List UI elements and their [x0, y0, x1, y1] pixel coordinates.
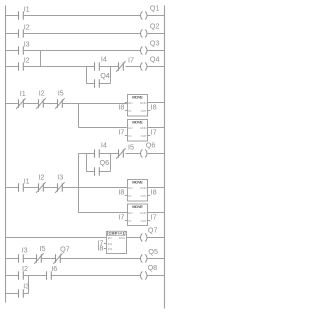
wire rung 7 left rail to contact I1 — [6, 187, 19, 189]
wire rung 5 NC I5 to block 1 EN — [62, 103, 127, 105]
svg-text:OUT: OUT — [141, 109, 147, 113]
contact Q4 (rung 4 latch branch) — [95, 71, 110, 88]
svg-text:EN: EN — [128, 101, 132, 105]
svg-text:IN: IN — [128, 194, 131, 198]
NC contact I5 (rung 9) — [34, 244, 45, 264]
wire left rail to CMP block EN — [6, 237, 107, 239]
wire rung 10 left rail to contact I2 — [6, 275, 19, 277]
svg-text:I8: I8 — [97, 244, 103, 253]
wire rung 1 contact I1 to coil Q1 — [23, 15, 140, 17]
wire rung 3 contact I3 to coil Q3 — [23, 50, 140, 52]
svg-text:OUT: OUT — [141, 134, 147, 138]
wire ENO of block 3 to right rail — [148, 187, 165, 189]
svg-text:ENO: ENO — [140, 126, 147, 130]
wire rung 10 coil Q8 to right rail — [147, 275, 164, 277]
svg-text:Q4: Q4 — [150, 55, 160, 64]
svg-text:I8: I8 — [151, 187, 157, 196]
svg-text:I7: I7 — [118, 212, 124, 221]
wire rung 6 coil Q6 to right rail — [147, 153, 164, 155]
coil Q8 — [141, 263, 158, 279]
left power rail — [5, 6, 7, 303]
coil Q6 — [141, 140, 156, 157]
branch wire contact Q4 to right vertical — [99, 83, 110, 85]
branch wire to block 4 EN — [79, 212, 128, 214]
wire rung 4 contact I2 to parallel branch — [23, 66, 94, 68]
svg-text:I5: I5 — [128, 143, 134, 152]
wire rung 7 NC I3 to block 3 EN — [62, 187, 127, 189]
branch wire to contact Q6 — [87, 171, 95, 173]
wire rung 2 left rail to contact I2 — [6, 33, 19, 35]
svg-text:I1: I1 — [24, 177, 30, 186]
svg-text:I8: I8 — [118, 187, 124, 196]
NC contact I5 (rung 6) — [116, 143, 134, 159]
svg-text:I2: I2 — [39, 89, 45, 98]
wire rung 7 NC I2 to NC I3 — [43, 187, 57, 189]
coil Q1 — [141, 4, 160, 20]
wire ENO of block 4 to right rail — [148, 212, 165, 214]
svg-text:I7: I7 — [151, 212, 157, 221]
svg-text:I2: I2 — [38, 172, 44, 181]
wire rung 3 coil Q3 to right rail — [147, 50, 164, 52]
coil Q4 — [141, 55, 160, 71]
NC contact I5 (rung 5) — [55, 89, 64, 109]
svg-text:Q6: Q6 — [146, 140, 156, 149]
wire rung 2 coil Q2 to right rail — [147, 33, 164, 35]
svg-text:I8: I8 — [151, 102, 157, 111]
NC contact I2 (rung 5) — [36, 89, 45, 109]
svg-text:I5: I5 — [58, 89, 64, 98]
svg-text:I3: I3 — [57, 172, 63, 181]
wire rung 9 NC Q7 to coil Q5 — [60, 258, 140, 260]
parallel join vertical (rung 10) — [28, 276, 30, 294]
wire rung 4 coil Q4 to right rail — [147, 66, 164, 68]
contact I4 (rung 6) — [95, 141, 107, 158]
branch wire contact I3 to join vertical — [23, 293, 28, 295]
svg-text:Q4: Q4 — [100, 71, 110, 80]
contact I2 (rung 2) — [19, 23, 30, 38]
svg-text:MOVE: MOVE — [132, 119, 143, 124]
branch right vertical (rung 4) — [110, 67, 112, 84]
svg-text:IN: IN — [128, 109, 131, 113]
svg-text:ENO: ENO — [140, 101, 147, 105]
svg-text:ENO: ENO — [119, 236, 126, 240]
function block MOVE 3 — [125, 179, 150, 201]
wire rung 4 NC I7 to coil Q4 — [126, 66, 141, 68]
wire rung 10 contact I2 to contact I6 — [23, 275, 46, 277]
svg-text:I3: I3 — [24, 40, 30, 49]
svg-text:IN: IN — [128, 134, 131, 138]
svg-text:MOVE: MOVE — [132, 179, 143, 184]
svg-text:I2: I2 — [24, 23, 30, 32]
contact Q6 (rung 6 latch branch) — [95, 158, 110, 176]
wire rung 1 left rail to contact I1 — [6, 15, 19, 17]
coil Q3 — [141, 39, 160, 55]
function block CMP (rung 8) — [104, 231, 127, 253]
contact I1 (rung 7) — [19, 177, 30, 192]
branch wire contact Q6 to right vertical — [99, 171, 110, 173]
svg-text:EN: EN — [108, 236, 112, 240]
wire rung 9 NC I5 to NC Q7 — [41, 258, 55, 260]
svg-text:Q2: Q2 — [150, 22, 160, 31]
right power rail — [164, 6, 166, 309]
branch vertical rung 5 down to block 2 — [78, 104, 80, 128]
wire rung 1 coil Q1 to right rail — [147, 15, 164, 17]
OR-branch vertical from rung 3 to rung 4 — [40, 51, 42, 67]
svg-text:Q3: Q3 — [150, 39, 160, 48]
function block MOVE 4 — [125, 204, 150, 226]
function block MOVE 1 — [125, 94, 150, 116]
svg-text:Q7: Q7 — [148, 226, 158, 235]
svg-text:I7: I7 — [128, 56, 134, 65]
contact I2 (rung 10) — [19, 264, 29, 280]
wire rung 4 left rail to contact I2 — [6, 66, 19, 68]
svg-text:Q6: Q6 — [100, 158, 110, 167]
svg-text:OUT: OUT — [141, 219, 147, 223]
contact I3 (rung 9) — [19, 246, 28, 263]
wire rung 10 contact I6 to coil Q8 — [51, 275, 140, 277]
svg-text:EN: EN — [128, 126, 132, 130]
svg-text:I3: I3 — [23, 282, 29, 291]
svg-text:I4: I4 — [101, 55, 107, 64]
wire rung 6 vertical to parallel box — [79, 153, 95, 155]
svg-text:I1: I1 — [20, 89, 26, 98]
svg-text:IN2: IN2 — [108, 247, 113, 251]
wire rung 4 after I4 to NC I7 — [99, 66, 118, 68]
svg-text:MOVE: MOVE — [132, 204, 143, 209]
contact I3 (rung 10 branch) — [19, 282, 30, 298]
wire rung 3 left rail to contact I3 — [6, 50, 19, 52]
coil Q2 — [141, 22, 160, 38]
wire rung 6 NC I5 to coil Q6 — [126, 153, 141, 155]
coil Q7 — [141, 226, 158, 242]
wire rung 7 contact I1 to NC I2 — [23, 187, 38, 189]
contact I4 (rung 4) — [95, 55, 107, 71]
svg-text:I7: I7 — [118, 127, 124, 136]
NC contact I2 (rung 7) — [36, 172, 45, 193]
contact I2 (rung 4) — [19, 56, 30, 71]
svg-text:ENO: ENO — [140, 211, 147, 215]
wire rung 9 coil Q5 to right rail — [147, 258, 164, 260]
wire rung 5 NC I2 to NC I5 — [43, 103, 57, 105]
svg-text:Q1: Q1 — [150, 4, 160, 13]
NC contact I7 (rung 4) — [116, 56, 134, 72]
wire rung 5 NC I1 to NC I2 — [23, 103, 38, 105]
svg-text:EN: EN — [128, 211, 132, 215]
branch left vertical (rung 4) — [86, 67, 88, 84]
NC contact I3 (rung 7) — [55, 172, 64, 193]
coil Q5 — [141, 247, 158, 262]
latch box right vertical (rung 6) — [110, 154, 112, 172]
branch wire left rail to contact I3 (rung 10) — [6, 293, 19, 295]
NC contact I1 (rung 5) — [16, 89, 26, 109]
wire rung 2 contact I2 to coil Q2 — [23, 33, 140, 35]
svg-text:Q7: Q7 — [60, 245, 70, 254]
wire CMP ENO to coil Q7 — [127, 237, 141, 239]
svg-text:OUT: OUT — [141, 194, 147, 198]
svg-text:I6: I6 — [51, 264, 57, 273]
contact I6 (rung 10) — [47, 264, 58, 280]
svg-text:IN: IN — [128, 219, 131, 223]
contact I3 (rung 3) — [19, 40, 30, 55]
NC contact Q7 (rung 9) — [53, 245, 69, 264]
wire ENO of block 2 to right rail — [148, 127, 165, 129]
latch box left vertical (rung 6) — [86, 154, 88, 172]
contact I1 (rung 1) — [19, 5, 30, 20]
wire rung 9 left rail to contact I3 — [6, 258, 19, 260]
svg-text:Q5: Q5 — [148, 247, 158, 256]
wire coil Q7 to right rail — [147, 237, 164, 239]
function block MOVE 2 — [125, 119, 150, 141]
svg-text:I2: I2 — [22, 264, 28, 273]
wire rung 6 after I4 to NC I5 — [99, 153, 118, 155]
svg-text:I2: I2 — [24, 56, 30, 65]
svg-text:Q8: Q8 — [148, 263, 158, 272]
svg-text:MOVE: MOVE — [132, 94, 143, 99]
branch wire to contact Q4 — [87, 83, 95, 85]
svg-text:I1: I1 — [24, 5, 30, 14]
svg-text:I4: I4 — [101, 141, 107, 150]
wire ENO of block 1 to right rail — [148, 102, 165, 104]
wire rung 5 left rail to NC I1 — [6, 103, 19, 105]
svg-text:ENO: ENO — [140, 186, 147, 190]
svg-text:I5: I5 — [40, 244, 46, 253]
svg-text:IN1: IN1 — [108, 242, 113, 246]
svg-text:I3: I3 — [22, 246, 28, 255]
wire rung 9 contact I3 to NC I5 — [23, 258, 36, 260]
svg-text:I7: I7 — [151, 127, 157, 136]
svg-text:EN: EN — [128, 186, 132, 190]
branch wire to block 2 EN — [79, 127, 128, 129]
shared branch vertical (rung 6 input / rung 7 / block 4 branch) — [78, 154, 80, 213]
svg-text:I8: I8 — [118, 102, 124, 111]
